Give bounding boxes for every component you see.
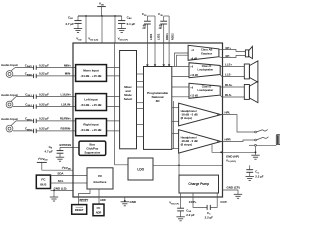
svg-text:Right Input: Right Input [83,123,98,127]
svg-text:L3D2: L3D2 [156,33,160,40]
svg-text:2.2 µF: 2.2 µF [205,215,213,219]
svg-text:L2/LIN-: L2/LIN- [61,102,71,106]
svg-text:R1/RIN+: R1/RIN+ [60,117,71,121]
svg-text:Audio Input: Audio Input [1,117,18,121]
capacitor CSS 2.2uF on VSS(CP) [177,208,195,217]
wire LLS- output [220,75,244,77]
Charge Pump block [179,175,219,193]
node junction VDD rail [85,15,87,17]
svg-text:RLS-: RLS- [225,93,232,97]
svg-text:4.7 µF: 4.7 µF [65,22,74,26]
node jack tip contact [255,131,257,133]
wire Class D left amp input 1 [172,66,189,68]
node junction GND(HP) [220,151,222,153]
wire GND(CP) pin [223,190,239,194]
node junction sleeve/ground [255,151,257,153]
loudspeaker left [244,61,258,82]
wire VDD(CP) internal rail down to LDO [115,43,128,165]
wire GND(LS) [51,189,74,191]
jack tip switch contact [256,130,267,132]
svg-text:4.7 µF: 4.7 µF [45,149,53,153]
svg-text:+6 dB: +6 dB [191,57,198,60]
svg-text:HPL: HPL [225,111,231,115]
wire to ground from GND(LS) [53,190,55,197]
svg-text:Earpiece: Earpiece [201,51,212,55]
svg-text:Left Input: Left Input [84,98,97,102]
wire RESET from I2C Interface to bottom pin [79,189,91,197]
wire mixer to 3D stub 4 [137,102,144,104]
wire RLS+ output [220,86,244,88]
wire CCP- pin [210,193,217,207]
op-amp Class D Loudspeaker left [189,63,220,78]
svg-text:Bias: Bias [90,143,96,147]
wire jack sleeve [249,144,255,146]
capacitor CINL2 0.22uF [34,104,37,108]
capacitor C3D left (68 nF) between pins L3D1/L3D2 [142,12,155,43]
wire mixer to 3D stub 6 [137,124,144,126]
wire HP left amp input 1 [172,107,179,109]
node audio input jack (left) [6,97,16,108]
svg-text:Class AB: Class AB [201,48,212,52]
ground at jack sleeve [251,155,259,159]
wire LLS+ output [220,66,244,68]
svg-text:GND (LS): GND (LS) [54,186,67,190]
capacitor CINR2 0.22uF [34,129,37,133]
svg-text:L1/LIN+: L1/LIN+ [60,92,71,96]
node audio input jack (right) [6,121,16,132]
wire R3D2 into 3D block with arrowhead [168,43,170,64]
op-amp Headphone left [179,103,221,126]
node jack ring contact [255,139,257,141]
wire mixer to 3D stub 1 [137,73,144,75]
wire SDA [51,175,88,177]
wire GND pin stub [124,197,126,202]
node junction GND [124,200,126,202]
wire HPL output [217,114,223,116]
node junction GND(LS) [53,190,55,192]
svg-text:Audio Input: Audio Input [1,93,18,97]
wire VSS(CP) pin [180,193,182,208]
I2C ADR block [93,204,104,216]
svg-text:+12 dB: +12 dB [190,95,198,98]
svg-text:0.22 µF: 0.22 µF [39,72,49,76]
wire EP+ output [219,49,223,51]
I2C Interface block [87,168,113,189]
svg-text:Interface: Interface [94,180,107,184]
jack ring switch contact [256,137,268,140]
wire HP right amp input 1 [172,132,179,134]
wire EP- to earpiece [223,56,246,58]
svg-text:L3D1: L3D1 [149,33,153,40]
IC outline [73,43,223,197]
wire EP- output [219,56,223,59]
wire L1/LIN+ input row [16,96,34,98]
svg-text:Loudspeaker: Loudspeaker [198,89,214,92]
wire L3D2 into 3D block with arrowhead [154,43,156,64]
svg-text:RLS+: RLS+ [225,83,233,87]
svg-text:68nF: 68nF [142,24,146,31]
wire L3D1 into 3D block with arrowhead [146,43,148,64]
wire RLS- output [220,95,244,97]
I2C BUS block [36,175,50,188]
wire LDO output to VG(LDO) pin [153,164,223,166]
svg-text:Loudspeaker: Loudspeaker [198,68,214,71]
wire HP left amp input 2 [172,120,179,122]
svg-text:Charge Pump: Charge Pump [188,182,209,186]
ground below GND(LS) [50,197,58,201]
capacitor CB1 [65,15,81,28]
node I2CVDD supply flag [37,157,48,170]
Programmable National 3D block [144,67,172,150]
wire CCP+ pin [193,193,207,207]
capacitor CG 2.2uF on VG(LDO) [246,165,263,178]
svg-text:BUS: BUS [40,183,46,187]
svg-text:SDA: SDA [57,171,64,175]
wire VDD(LS) pin stub [101,16,103,43]
wire VDD rail [78,15,122,17]
wire mixer to 3D stub 7 [137,136,144,138]
svg-text:GND (CP): GND (CP) [227,185,240,189]
wire ADR from I2C Interface to bottom pin [98,189,100,197]
wire HPR output [217,141,223,143]
wire Class D right amp input 2 [172,96,189,98]
svg-text:-64 dB - +15 dB: -64 dB - +15 dB [81,74,102,78]
svg-text:LLS-: LLS- [225,73,231,77]
svg-text:LDO: LDO [137,167,144,171]
svg-text:R3D2: R3D2 [170,33,174,40]
svg-text:Select: Select [124,97,133,101]
wire MIN+ input row [15,67,34,69]
wire GND(HP) to sleeve [223,151,256,153]
capacitor CB2 [118,15,135,28]
node junction LDO output [178,164,180,166]
wire R1/RIN+ input row [16,120,34,122]
ground below CG [246,176,254,180]
wire MIN- input row [13,75,34,77]
svg-text:Click/Pop: Click/Pop [86,146,98,150]
svg-text:HPR: HPR [225,138,232,142]
svg-text:BYPASS: BYPASS [60,143,72,147]
ground below CB [56,157,64,161]
wire HP amp ground to GND(HP) [212,145,223,153]
svg-text:0.22 µF: 0.22 µF [39,63,49,67]
wire mixer to 3D stub 5 [137,108,144,110]
ground below CB2 [118,29,126,33]
svg-text:GND: GND [130,200,136,204]
node junction VDD rail [101,15,103,17]
Right Input gain block [76,119,107,136]
svg-text:SCL: SCL [58,179,64,183]
capacitor CB 4.7uF on BYPASS [45,145,64,157]
svg-text:GND (HP): GND (HP) [226,154,239,158]
ground at GND pin [121,202,129,206]
wire earpiece amp input riser 2 [177,55,190,66]
wire sleeve to ground [255,146,257,155]
node VDD supply symbol [97,2,106,16]
op-amp Headphone right [179,130,221,153]
capacitor CINR1 0.22uF [34,119,37,123]
svg-text:ADR: ADR [96,210,102,214]
wire VDD(CP) pin stub [114,16,116,43]
svg-text:RESET: RESET [75,208,84,212]
svg-text:0.22 µF: 0.22 µF [39,102,49,106]
wire Class D left amp input 2 [172,75,189,77]
svg-text:Mono Input: Mono Input [83,69,99,73]
svg-text:2.2 µF: 2.2 µF [186,213,194,217]
wire earpiece amp input riser 1 [175,53,190,67]
svg-text:R2/RIN-: R2/RIN- [61,127,71,131]
headphone plug body [276,135,280,145]
node junction VDD rail [114,15,116,17]
wire junction down to charge pump [178,165,180,175]
wire Class D right amp input 1 [172,86,189,88]
wire SCL [51,182,88,184]
wire RESET box stub [78,197,80,205]
LDO block [128,158,153,180]
svg-text:I2C: I2C [97,206,101,210]
svg-text:-64 dB - +15 dB: -64 dB - +15 dB [81,103,102,107]
node audio input jack (mono) [6,68,15,78]
capacitor CINM2 0.22uF [34,74,37,78]
wire HPR to jack ring [223,140,255,142]
wire mixer to 3D stub 2 [137,81,144,83]
svg-text:LLS+: LLS+ [225,63,232,67]
svg-text:0.22 µF: 0.22 µF [39,127,49,131]
svg-text:ADR: ADR [100,198,106,202]
svg-text:2.2 µF: 2.2 µF [255,174,263,178]
wire I2C ADR box stub [98,197,100,204]
ground below GND(CP) [234,194,242,198]
svg-text:0.1 µF: 0.1 µF [127,22,136,26]
capacitor CINL1 0.22uF [34,94,37,98]
svg-text:(8 steps): (8 steps) [181,143,193,147]
op-amp Class D Loudspeaker right [189,83,220,98]
Mixer and Mode Select block [120,51,137,149]
svg-text:-64 dB - +15 dB: -64 dB - +15 dB [81,128,102,132]
wire R2/RIN- input row [13,130,34,132]
wire HP right amp input 2 [172,148,179,150]
capacitor CC 2.2uF flying cap [205,205,213,220]
wire L2/LIN- input row [13,106,34,108]
svg-text:Suppression: Suppression [84,150,100,154]
svg-text:Audio Input: Audio Input [1,63,18,67]
svg-text:0.22 µF: 0.22 µF [39,117,49,121]
svg-text:(8 steps): (8 steps) [181,116,193,120]
svg-text:68nF: 68nF [159,24,163,31]
wire junction up to headphone amps [178,153,180,165]
capacitor C3D right (68 nF) between pins R3D1/R3D2 [158,12,169,43]
earpiece speaker [245,46,252,58]
svg-text:CCP-: CCP- [220,200,227,204]
ground below CSS [176,217,184,221]
svg-text:R3D1: R3D1 [165,33,169,40]
svg-text:+12 dB: +12 dB [190,74,198,77]
RESET block [72,205,87,215]
node jack sleeve contact [255,144,257,146]
wire BYPASS pin [60,146,79,148]
op-amp Class AB Earpiece [188,45,219,60]
svg-text:MIN-: MIN- [65,72,71,76]
Mono Input gain block [76,65,107,82]
loudspeaker right [244,81,258,102]
svg-text:0.22 µF: 0.22 µF [39,92,49,96]
Bias Click/Pop Suppression block [79,141,106,155]
svg-text:MIN+: MIN+ [64,63,71,67]
svg-text:CCP+: CCP+ [189,200,197,204]
wire R3D1 into 3D block with arrowhead [163,43,165,64]
wire HPL to jack tip [223,115,255,132]
ground below CB1 [74,29,82,33]
wire mixer to 3D stub 3 [137,86,144,88]
wire I2CVDD pin [42,169,73,171]
wire HP amp input feeder vertical [173,101,175,149]
capacitor CINM1 0.22uF [34,65,37,69]
Left Input gain block [76,94,107,111]
wire VDD pin stub [85,16,87,43]
wire EP+ to earpiece [223,50,246,52]
